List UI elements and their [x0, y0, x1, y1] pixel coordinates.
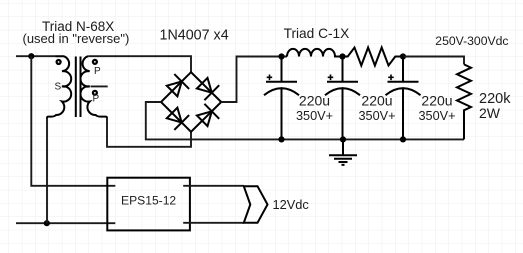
wire P2 bottom to bridge AC2 (bottom corner) — [107, 118, 191, 147]
capacitor C1 — [264, 57, 299, 140]
svg-text:220u: 220u — [421, 92, 452, 108]
svg-text:P: P — [93, 94, 100, 105]
wire center tap stub — [91, 85, 108, 87]
transformer T1 phase dot S — [57, 60, 61, 64]
diode D3 (bottom-left, points to bottom corner) — [167, 108, 189, 130]
wire EPS output 1 to connector — [183, 185, 244, 187]
svg-text:Triad C-1X: Triad C-1X — [284, 26, 350, 41]
connector 12Vdc off-page arrow — [244, 186, 268, 223]
transformer T1 winding S — [47, 56, 71, 118]
wire EPS output 2 to connector — [183, 222, 244, 224]
wire bridge DC+ (right corner) up to positive rail — [221, 57, 287, 103]
svg-text:12Vdc: 12Vdc — [273, 197, 310, 212]
junction dot bottom rail at C1 — [278, 136, 284, 142]
ground — [329, 139, 357, 165]
wire vertical from node A to EPS input 1 — [31, 56, 115, 186]
svg-text:S: S — [55, 82, 62, 93]
svg-text:2W: 2W — [479, 105, 501, 121]
junction dot node A — [28, 53, 34, 59]
svg-text:EPS15-12: EPS15-12 — [121, 193, 176, 207]
svg-text:220u: 220u — [361, 92, 392, 108]
wire bridge DC- (left corner) to negative rail — [146, 102, 464, 139]
junction dot bottom rail at C3 — [400, 136, 406, 142]
resistor R1 (series dropping resistor) — [343, 48, 404, 66]
svg-text:350V+: 350V+ — [418, 109, 455, 123]
diode D2 (top-right, points to right corner) — [197, 78, 219, 100]
svg-text:250V-300Vdc: 250V-300Vdc — [435, 34, 508, 48]
svg-text:220u: 220u — [299, 92, 330, 108]
transformer T1 core — [76, 57, 81, 118]
capacitor C2 — [325, 57, 360, 140]
transformer T1 winding P (two series sections) — [80, 56, 107, 118]
svg-text:P: P — [94, 66, 101, 77]
transformer T1 phase dot P1 — [93, 60, 97, 64]
transformer T1 phase dot P2 — [93, 91, 97, 95]
wire input line 1 (top left AC) — [16, 55, 56, 57]
junction dot node C2 top — [339, 53, 345, 59]
inductor L1 Triad C-1X — [287, 49, 343, 57]
rectifier bridge diamond wires — [161, 72, 221, 132]
wire top rail node C3 to 220k resistor — [403, 57, 464, 65]
capacitor C3 — [386, 57, 421, 140]
junction dot node C3 top — [400, 53, 406, 59]
junction dot node B — [44, 220, 50, 226]
svg-text:(used in "reverse"): (used in "reverse") — [23, 31, 130, 46]
svg-text:1N4007 x4: 1N4007 x4 — [160, 27, 229, 43]
wire P1 top to bridge AC1 (top corner) — [88, 56, 191, 72]
wire S winding bottom to node B — [46, 118, 48, 223]
EPS15-12 power module box — [107, 178, 190, 231]
svg-text:350V+: 350V+ — [358, 109, 395, 123]
junction dot node C1 top — [278, 53, 284, 59]
wire input line 2 (bottom left AC) to EPS input 2 — [16, 222, 115, 224]
diode D1 (top-left, points to top corner) — [167, 74, 189, 96]
svg-text:350V+: 350V+ — [296, 109, 333, 123]
diode D4 (bottom-right, points to right corner) — [197, 104, 219, 126]
resistor R2 220k bleeder — [457, 64, 471, 139]
junction dot bottom rail at C2/ground — [340, 136, 346, 142]
